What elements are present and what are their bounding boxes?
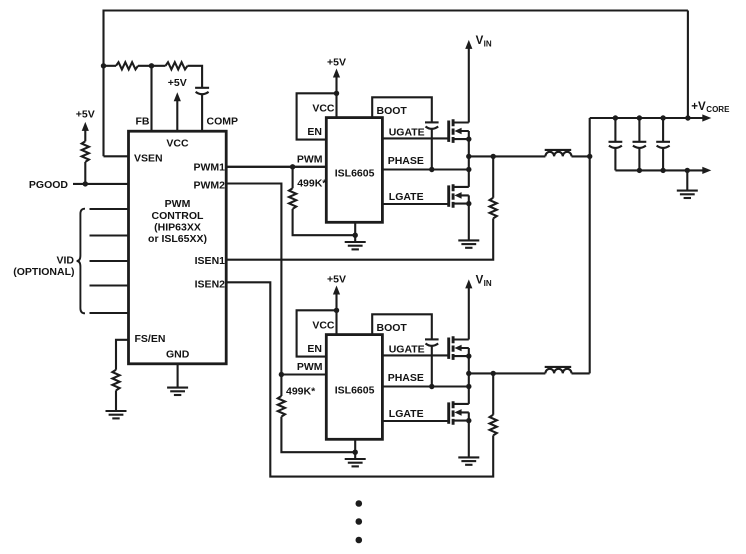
- svg-text:V: V: [476, 275, 484, 287]
- ground output: [677, 190, 698, 192]
- inductor L1: [545, 152, 571, 157]
- ground lower MOSFET driver 2: [458, 456, 479, 458]
- svg-text:COMP: COMP: [207, 116, 239, 128]
- wire 499K bottom to GND driver 1: [293, 209, 356, 235]
- svg-text:UGATE: UGATE: [389, 343, 425, 355]
- svg-text:VCC: VCC: [312, 320, 335, 332]
- svg-text:FB: FB: [136, 116, 150, 128]
- node current sense tap driver 2: [491, 371, 496, 376]
- node output cap 1 top: [613, 115, 618, 120]
- ground lower MOSFET driver 1: [458, 239, 479, 241]
- svg-text:LGATE: LGATE: [389, 191, 424, 203]
- node gnd rail cap 2: [637, 168, 642, 173]
- svg-text:499K*: 499K*: [286, 385, 316, 397]
- capacitor bootstrap driver 1: [425, 121, 439, 123]
- wire sense tap to resistor driver 1: [492, 156, 494, 197]
- wire phase riser driver 1: [468, 139, 470, 187]
- wire VID bit 3: [90, 284, 129, 286]
- node FB divider junction: [149, 63, 154, 68]
- svg-text:VCC: VCC: [166, 138, 189, 150]
- wire ISEN1 return: [226, 218, 493, 259]
- ground driver 1: [345, 241, 366, 243]
- wire output riser (inductors common node): [589, 118, 591, 373]
- node VCC supply junction driver 2: [334, 308, 339, 313]
- wire pull-up to PGOOD node: [84, 162, 86, 184]
- wire output ground rail: [615, 169, 703, 171]
- wire PHASE pin driver 2: [382, 385, 468, 387]
- svg-text:VID: VID: [56, 255, 74, 267]
- node FB rail junction: [101, 63, 106, 68]
- wire PWM pin driver 1: [226, 166, 326, 168]
- node boot cap phase junction driver 2: [429, 384, 434, 389]
- node gnd rail cap 3: [660, 168, 665, 173]
- resistor 499K driver 1: [292, 167, 294, 189]
- transistor Q3 upper MOSFET driver 2: [447, 338, 450, 359]
- svg-text:or ISL65XX): or ISL65XX): [148, 233, 207, 245]
- wire PWM1 to driver 1: [226, 166, 326, 168]
- wire right rail to +VCORE node: [687, 11, 689, 119]
- wire VID bit 4: [90, 312, 129, 314]
- svg-text:499K*: 499K*: [297, 178, 327, 190]
- svg-text:VSEN: VSEN: [134, 153, 163, 165]
- node continuation ellipsis: [356, 500, 363, 507]
- svg-text:PHASE: PHASE: [388, 155, 424, 167]
- ground controller: [167, 387, 188, 389]
- wire GND stub driver 1: [354, 222, 356, 242]
- wire LGATE pin driver 1: [382, 203, 447, 205]
- resistor feedback upper-right: [166, 62, 188, 69]
- node phase/inductor junction driver 1: [466, 154, 471, 159]
- node boot cap phase junction driver 1: [429, 167, 434, 172]
- svg-text:FS/EN: FS/EN: [135, 333, 166, 345]
- node GND junction driver 1: [353, 233, 358, 238]
- wire lower source to ground driver 1: [468, 204, 470, 241]
- U3 ISL6605 driver block: [326, 335, 382, 440]
- svg-text:+5V: +5V: [76, 109, 95, 121]
- wire UGATE pin driver 1: [382, 137, 447, 139]
- wire +VCORE rail: [590, 117, 704, 119]
- svg-text:GND: GND: [166, 349, 190, 361]
- svg-text:IN: IN: [484, 40, 492, 49]
- wire VID bit 1: [90, 234, 129, 236]
- wire resistor to ground: [115, 390, 117, 411]
- svg-text:IN: IN: [484, 279, 492, 288]
- U1 PWM controller block HIP63XX/ISL65XX: [129, 131, 227, 364]
- svg-text:ISEN2: ISEN2: [195, 279, 226, 291]
- wire COMP pin: [201, 94, 203, 131]
- svg-text:PWM: PWM: [297, 154, 323, 166]
- svg-text:PWM1: PWM1: [194, 162, 226, 174]
- wire VCC/EN loop driver 1: [297, 93, 337, 139]
- wire VIN riser driver 2: [468, 287, 470, 339]
- svg-text:ISL6605: ISL6605: [335, 168, 375, 180]
- wire PWM pin driver 2: [281, 373, 326, 375]
- ground FS/EN: [106, 410, 127, 412]
- svg-text:PWM: PWM: [165, 198, 191, 210]
- svg-text:BOOT: BOOT: [377, 322, 408, 334]
- svg-text:CORE: CORE: [706, 105, 730, 114]
- wire GND stub driver 2: [354, 439, 356, 459]
- svg-text:(HIP63XX: (HIP63XX: [154, 221, 201, 233]
- wire ISEN2 return: [226, 282, 493, 476]
- wire VID bit 0: [90, 208, 129, 210]
- wire +5V arrow to VCC box driver 1: [335, 75, 337, 93]
- svg-text:+5V: +5V: [327, 56, 346, 68]
- wire phase riser driver 2: [468, 356, 470, 404]
- node output cap 2 top: [637, 115, 642, 120]
- resistor PGOOD pull-up: [82, 141, 89, 162]
- wire PGOOD pin: [73, 183, 129, 185]
- resistor feedback upper-left: [116, 62, 138, 69]
- wire lower source to ground driver 2: [468, 421, 470, 458]
- wire VIN riser driver 1: [468, 48, 470, 123]
- node phase pin junction driver 2: [466, 384, 471, 389]
- node gnd rail symbol junction: [685, 168, 690, 173]
- wire PHASE pin driver 1: [382, 168, 468, 170]
- svg-text:(OPTIONAL): (OPTIONAL): [13, 266, 74, 278]
- node PWM/499K junction driver 1: [290, 164, 295, 169]
- wire VCC/EN loop driver 2: [297, 310, 337, 356]
- resistor FS/EN: [112, 370, 119, 391]
- resistor current sense driver 2: [490, 415, 497, 436]
- brace VID group: [77, 209, 85, 314]
- svg-text:V: V: [476, 35, 484, 47]
- capacitor output C2: [638, 118, 640, 142]
- wire UGATE pin driver 2: [382, 354, 447, 356]
- wire FS/EN pin: [116, 340, 129, 370]
- svg-text:CONTROL: CONTROL: [152, 210, 204, 222]
- node lower source junction driver 1: [466, 201, 471, 206]
- node phase pin junction driver 1: [466, 167, 471, 172]
- wire 499K bottom to GND driver 2: [281, 417, 355, 453]
- wire VSEN pin: [104, 155, 129, 157]
- svg-text:UGATE: UGATE: [389, 126, 425, 138]
- inductor L2: [545, 369, 571, 374]
- svg-text:VCC: VCC: [312, 103, 335, 115]
- capacitor COMP compensation: [195, 87, 209, 89]
- node PGOOD junction: [83, 181, 88, 186]
- transistor Q2 lower MOSFET driver 1: [447, 185, 450, 206]
- node upper source junction driver 2: [466, 353, 471, 358]
- resistor 499K driver 2: [280, 375, 282, 397]
- wire boot cap to phase driver 1: [431, 129, 433, 170]
- svg-text:PGOOD: PGOOD: [29, 179, 69, 191]
- transistor Q4 lower MOSFET driver 2: [447, 402, 450, 423]
- node GND junction driver 2: [353, 450, 358, 455]
- svg-text:ISL6605: ISL6605: [335, 385, 375, 397]
- node upper source junction driver 1: [466, 136, 471, 141]
- transistor Q1 upper MOSFET driver 1: [447, 121, 450, 142]
- node phase/inductor junction driver 2: [466, 371, 471, 376]
- svg-text:EN: EN: [307, 126, 322, 138]
- node VCC supply junction driver 1: [334, 91, 339, 96]
- svg-text:PWM: PWM: [297, 361, 323, 373]
- wire phase node to inductor driver 2: [469, 372, 590, 374]
- node top rail junction: [685, 115, 690, 120]
- wire VID bit 2: [90, 260, 129, 262]
- svg-text:PWM2: PWM2: [194, 180, 226, 192]
- wire BOOT loop driver 2: [372, 314, 432, 339]
- wire GND pin controller: [177, 364, 179, 388]
- U2 ISL6605 driver block: [326, 118, 382, 223]
- capacitor bootstrap driver 2: [425, 338, 439, 340]
- svg-text:EN: EN: [307, 343, 322, 355]
- node lower source junction driver 2: [466, 418, 471, 423]
- wire sense tap to resistor driver 2: [492, 373, 494, 414]
- wire PWM2 to driver 2: [226, 184, 281, 375]
- node output cap 3 top: [660, 115, 665, 120]
- svg-text:BOOT: BOOT: [377, 105, 408, 117]
- wire FB pin riser: [150, 66, 152, 131]
- wire phase node to inductor driver 1: [469, 155, 590, 157]
- wire +5V arrow to pull-up resistor: [84, 129, 86, 142]
- node current sense tap driver 1: [491, 154, 496, 159]
- wire LGATE pin driver 2: [382, 420, 447, 422]
- wire BOOT loop driver 1: [372, 97, 432, 122]
- wire gnd rail stub: [686, 170, 688, 190]
- wire FB network top: [104, 66, 203, 88]
- wire top feedback rail: [104, 11, 688, 157]
- svg-text:ISEN1: ISEN1: [195, 255, 226, 267]
- svg-text:LGATE: LGATE: [389, 408, 424, 420]
- wire +5V arrow to VCC box driver 2: [335, 292, 337, 310]
- wire VCC pin arrow controller: [176, 99, 178, 131]
- wire boot cap to phase driver 2: [431, 346, 433, 387]
- resistor current sense driver 1: [490, 198, 497, 219]
- node inductor 1 output junction: [587, 154, 592, 159]
- node PWM/499K junction driver 2: [279, 372, 284, 377]
- svg-text:PHASE: PHASE: [388, 372, 424, 384]
- capacitor output C3: [662, 118, 664, 142]
- svg-text:+5V: +5V: [168, 77, 187, 89]
- ground driver 2: [345, 458, 366, 460]
- capacitor output C1: [614, 118, 616, 142]
- svg-text:+5V: +5V: [327, 273, 346, 285]
- svg-text:+V: +V: [691, 101, 706, 113]
